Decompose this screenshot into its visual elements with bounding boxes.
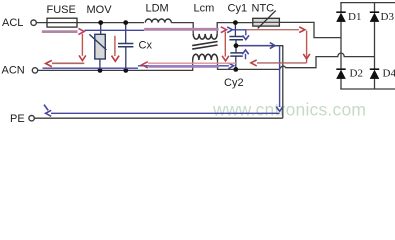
svg-text:Cx: Cx: [139, 39, 153, 51]
flow line blue top thin: [85, 29, 145, 31]
svg-text:Cy1: Cy1: [228, 2, 248, 14]
wire PE line: [34, 117, 282, 119]
Lcm core bars: [192, 42, 217, 50]
svg-text:FUSE: FUSE: [47, 4, 76, 16]
wire LDM to Lcm: [171, 23, 193, 34]
flow arrowhead red right at band end: [78, 28, 84, 34]
thermistor NTC: [253, 18, 280, 26]
flow arrow blue right at Cy midpoint: [241, 45, 271, 47]
fuse FUSE: [47, 18, 77, 27]
wire ACL to fuse and top line to LDM: [37, 22, 144, 24]
junction node top Cy1: [233, 20, 238, 25]
junction node bottom Cx: [123, 68, 128, 73]
bridge right leg: [374, 3, 376, 89]
svg-text:D1: D1: [348, 11, 361, 23]
flow line blue along PE to terminal: [51, 112, 280, 114]
flow arrow red left exit ACN: [52, 62, 84, 64]
common-mode choke Lcm top winding: [193, 34, 217, 39]
flow line red left return upper: [257, 62, 307, 64]
flow line blue bottom left: [43, 67, 139, 69]
flow band purple top left: [42, 30, 78, 33]
flow arrow red down beside MOV: [81, 34, 83, 56]
capacitor Cy2: [235, 46, 237, 53]
flow arrow blue up through Cy2: [245, 54, 247, 60]
inductor LDM: [145, 19, 171, 23]
svg-text:D2: D2: [350, 68, 363, 80]
bridge left leg: [340, 3, 342, 89]
flow band purple bottom: [149, 65, 219, 68]
terminal ACL: [31, 20, 36, 25]
flow arrowhead blue down into Cy1: [243, 35, 249, 39]
flow arrow red down through Cx: [114, 36, 116, 56]
capacitor Cy1: [234, 23, 236, 37]
wire NTC to bridge L input: [279, 22, 341, 37]
svg-text:D3: D3: [381, 11, 395, 23]
flow line blue down to PE: [279, 46, 281, 107]
flow band purple top right: [144, 28, 218, 31]
flow arrow red down through Cy1 Cy2: [224, 32, 226, 57]
diode D3: [370, 11, 379, 13]
flow arrowhead blue right after Lcm: [227, 27, 232, 33]
svg-text:www.cntronics.com: www.cntronics.com: [212, 99, 366, 119]
diode D1: [336, 11, 345, 13]
junction node top Cx: [123, 20, 128, 25]
bridge bottom rail: [340, 88, 395, 90]
wire Lcm top right to NTC: [217, 23, 253, 34]
svg-text:ACN: ACN: [2, 65, 25, 77]
wire Lcm to bridge N input with hop: [218, 53, 375, 69]
svg-text:MOV: MOV: [87, 4, 113, 16]
svg-text:PE: PE: [10, 113, 25, 125]
svg-text:ACL: ACL: [2, 17, 23, 29]
junction node bottom MOV: [98, 68, 103, 73]
junction node top MOV: [98, 20, 103, 25]
svg-text:NTC: NTC: [252, 2, 275, 14]
diode D4: [370, 68, 379, 70]
flow arrow red down before bridge: [306, 31, 308, 63]
bridge top rail: [340, 2, 395, 4]
flow line red left return lower: [148, 62, 236, 64]
svg-text:Cy2: Cy2: [224, 77, 244, 89]
diode D2: [336, 68, 345, 70]
wire ACN to Lcm: [38, 60, 193, 70]
svg-text:LDM: LDM: [146, 2, 169, 14]
flow line red right under NTC: [246, 29, 299, 31]
flow line blue bottom mid to Cy2: [138, 65, 229, 67]
stray blue slash near PE: [44, 105, 48, 111]
svg-text:D4: D4: [383, 68, 395, 80]
junction node bottom Cy2: [233, 67, 238, 72]
varistor MOV: [100, 23, 102, 35]
capacitor Cx: [125, 23, 127, 44]
Lcm bottom winding: [193, 54, 218, 60]
flow line blue to Cy1: [232, 30, 245, 36]
terminal PE: [29, 116, 34, 121]
flow arrowhead red right after Lcm: [221, 27, 227, 33]
wire Cy midpoint to PE drop: [236, 46, 283, 119]
junction node Cy midpoint: [234, 43, 239, 48]
svg-text:Lcm: Lcm: [194, 2, 215, 14]
terminal ACN: [32, 68, 37, 73]
